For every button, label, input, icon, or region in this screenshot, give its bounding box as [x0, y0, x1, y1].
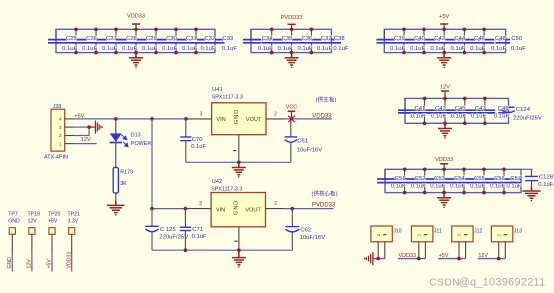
- svg-text:C70: C70: [192, 137, 204, 143]
- svg-text:TP19: TP19: [28, 212, 41, 218]
- svg-text:C46: C46: [474, 36, 486, 42]
- svg-text:GND: GND: [7, 257, 13, 269]
- node (U42 gnd): [237, 248, 241, 252]
- svg-text:0.1uF: 0.1uF: [507, 184, 522, 190]
- LED D13: [110, 119, 152, 168]
- svg-text:J13: J13: [514, 228, 522, 234]
- svg-text:0.1uF: 0.1uF: [298, 46, 313, 52]
- svg-text:12V: 12V: [28, 218, 38, 224]
- svg-text:2: 2: [274, 201, 277, 207]
- ground (C128): [522, 186, 540, 201]
- svg-text:C26: C26: [86, 36, 98, 42]
- pin VOUT U41: [266, 118, 283, 120]
- svg-text:0.1uF: 0.1uF: [538, 182, 553, 188]
- svg-text:0.1uF: 0.1uF: [450, 184, 465, 190]
- wire (top-rail extension to C128): [521, 168, 533, 170]
- wire (TP20 net): [51, 254, 53, 272]
- node (C71): [184, 207, 188, 211]
- svg-text:PVDD33: PVDD33: [281, 15, 303, 21]
- svg-text:C57: C57: [510, 176, 521, 182]
- svg-text:VCC: VCC: [286, 105, 297, 111]
- svg-text:0.1uF: 0.1uF: [451, 46, 466, 52]
- pin GND U42: [238, 227, 240, 250]
- capacitor C54: [450, 168, 474, 195]
- node (J11 pin2): [417, 257, 421, 261]
- test point TP20 (+5V): [48, 212, 61, 254]
- svg-text:TP7: TP7: [8, 212, 18, 218]
- ground (J10, rotated left): [364, 252, 373, 265]
- capacitor C34: [258, 28, 282, 55]
- svg-text:0.1uF: 0.1uF: [490, 184, 505, 190]
- svg-text:SPX1117-3.3: SPX1117-3.3: [211, 187, 242, 193]
- svg-text:0.1uF: 0.1uF: [410, 46, 425, 52]
- svg-text:C34: C34: [262, 36, 274, 42]
- svg-text:C32: C32: [204, 36, 215, 42]
- capacitor C124 (220uF/25V): [494, 106, 542, 122]
- capacitor C28: [122, 28, 146, 55]
- wire (plate-line extension left): [48, 39, 66, 41]
- svg-text:C47: C47: [475, 106, 486, 112]
- no-ERC marker (red X): [288, 116, 294, 122]
- svg-text:0.1uF: 0.1uF: [258, 46, 273, 52]
- svg-text:GND: GND: [234, 109, 240, 124]
- svg-text:C44: C44: [454, 36, 466, 42]
- pin 2 (J13): [498, 242, 500, 259]
- node (C70 tap): [184, 117, 188, 121]
- svg-text:C128: C128: [539, 174, 554, 180]
- pin number 1 (U42): [234, 241, 237, 242]
- pin VOUT U42: [266, 208, 284, 210]
- svg-text:0.1uF: 0.1uF: [471, 114, 486, 120]
- svg-text:2: 2: [416, 233, 421, 236]
- capacitor C31: [182, 28, 206, 55]
- svg-text:2: 2: [457, 233, 462, 236]
- wire U42 bottom rail: [152, 249, 292, 251]
- wire U41 bottom rail: [186, 161, 291, 163]
- svg-text:C38: C38: [334, 36, 346, 42]
- resistor R179: [113, 168, 133, 194]
- svg-text:0.1uF: 0.1uF: [201, 46, 216, 52]
- capacitor C36: [298, 28, 322, 55]
- connector J12: [452, 226, 483, 242]
- wire (plate-line extension left): [398, 109, 415, 111]
- capacitor C42: [430, 28, 454, 55]
- svg-text:TP21: TP21: [68, 212, 81, 218]
- capacitor C33 (outside right): [215, 36, 237, 52]
- cap bank 12V: rail box: [405, 98, 509, 123]
- svg-text:C50: C50: [511, 36, 523, 42]
- wire (plate-line extension left): [243, 39, 261, 41]
- capacitor C56: [490, 168, 514, 195]
- svg-text:C41: C41: [414, 106, 425, 112]
- ground: [285, 53, 299, 68]
- svg-text:0.1uF: 0.1uF: [142, 46, 157, 52]
- svg-text:C62: C62: [300, 228, 311, 234]
- svg-text:C71: C71: [192, 227, 203, 233]
- ground: [437, 193, 451, 208]
- wire +5V rail: [74, 118, 187, 120]
- svg-text:0.1uF: 0.1uF: [431, 114, 446, 120]
- svg-text:0.1uF: 0.1uF: [278, 46, 293, 52]
- svg-text:0.1uF: 0.1uF: [451, 114, 466, 120]
- wire (J12 net +5V): [438, 258, 465, 260]
- svg-text:(供核心板): (供核心板): [312, 190, 338, 198]
- power symbol 12V: [440, 85, 450, 99]
- svg-text:+5V: +5V: [47, 259, 53, 269]
- svg-text:J11: J11: [434, 228, 442, 234]
- svg-text:C36: C36: [301, 36, 313, 42]
- capacitor C71 (0.1uF): [180, 209, 207, 251]
- svg-text:PVDD33: PVDD33: [312, 203, 336, 209]
- wire 12V stub: [74, 143, 96, 145]
- svg-text:C61: C61: [297, 139, 308, 145]
- capacitor C29: [142, 28, 166, 55]
- power symbol PVDD33: [281, 15, 303, 30]
- svg-text:C53: C53: [434, 176, 446, 182]
- svg-text:3K: 3K: [120, 181, 127, 187]
- connector J13: [491, 226, 522, 242]
- svg-text:R179: R179: [120, 170, 133, 176]
- svg-text:10uF/16V: 10uF/16V: [300, 235, 326, 241]
- svg-text:C55: C55: [474, 176, 486, 182]
- svg-text:VDD33: VDD33: [399, 253, 416, 259]
- capacitor C43: [431, 97, 455, 126]
- capacitor C53: [430, 168, 454, 195]
- wire U42 input rail: [152, 208, 188, 210]
- power symbol +5V: [439, 14, 449, 29]
- wire +5V branch down to U42: [151, 119, 153, 209]
- svg-text:C28: C28: [126, 36, 138, 42]
- node (J12 pin2): [457, 257, 461, 261]
- svg-text:0.1uF: 0.1uF: [162, 46, 177, 52]
- svg-text:0.1uF: 0.1uF: [430, 46, 445, 52]
- wire (TP21 net): [71, 254, 73, 272]
- capacitor C38 (outside right): [331, 36, 348, 52]
- svg-text:U42: U42: [212, 179, 223, 185]
- capacitor C50 (outside right): [506, 36, 527, 52]
- svg-text:0.1uF: 0.1uF: [62, 46, 77, 52]
- cap bank VDD33-2: rail box: [385, 169, 521, 192]
- svg-text:0.1uF: 0.1uF: [82, 46, 97, 52]
- svg-text:3: 3: [199, 201, 202, 207]
- capacitor C70 (0.1uF): [180, 119, 206, 162]
- ground: [438, 123, 452, 138]
- svg-text:SPX1117-3.3: SPX1117-3.3: [212, 95, 243, 101]
- pin 1 (J12): [465, 242, 467, 259]
- op-amp/regulator U42 SPX1117-3.3: [211, 179, 265, 227]
- svg-text:0.1uF: 0.1uF: [102, 46, 117, 52]
- svg-text:C39: C39: [394, 36, 405, 42]
- cap bank VDD33-1: rail box: [56, 29, 215, 52]
- power symbol VCC: [286, 105, 297, 119]
- pin number 1 (U41): [233, 150, 236, 151]
- svg-text:VOUT: VOUT: [245, 208, 261, 214]
- pin 2 (J10): [377, 242, 379, 259]
- svg-text:C51: C51: [395, 176, 406, 182]
- svg-text:C45: C45: [455, 106, 467, 112]
- wire (J11 net VDD33): [398, 258, 425, 260]
- cap bank PVDD33: rail box: [251, 29, 331, 52]
- svg-text:+5V: +5V: [439, 14, 449, 20]
- node (C62 tap): [291, 207, 295, 211]
- capacitor C57 (at right rail): [507, 176, 522, 190]
- ground (U42): [232, 250, 246, 268]
- node junction pins 2+3: [87, 125, 91, 129]
- svg-text:0.1uF: 0.1uF: [317, 46, 332, 52]
- power symbol VDD33: [127, 14, 145, 30]
- wire VOUT to PVDD33: [283, 208, 334, 210]
- capacitor C25: [62, 28, 86, 55]
- capacitor C51: [391, 168, 415, 195]
- svg-text:C43: C43: [435, 106, 447, 112]
- capacitor C39: [390, 28, 414, 55]
- pin 2 stub: [65, 135, 75, 137]
- pin 1 (J11): [424, 242, 426, 259]
- pin GND U41: [238, 135, 240, 163]
- pin 1 stub: [65, 143, 75, 145]
- test point TP7 (GND): [8, 212, 20, 254]
- svg-text:C124: C124: [516, 107, 531, 113]
- node VCC/VDD33: [290, 117, 293, 120]
- svg-text:220uF/25V: 220uF/25V: [159, 235, 188, 241]
- svg-text:0.1uF: 0.1uF: [333, 46, 348, 52]
- svg-text:3: 3: [200, 111, 203, 117]
- power symbol VDD33: [435, 157, 453, 169]
- svg-text:+5V: +5V: [439, 253, 449, 259]
- svg-text:J10: J10: [393, 228, 401, 234]
- node (C125): [150, 207, 154, 211]
- capacitor C30: [162, 28, 186, 55]
- wire (TP19 net): [31, 254, 33, 272]
- svg-text:0.1uF: 0.1uF: [222, 46, 237, 52]
- svg-text:@q_1039692211: @q_1039692211: [459, 277, 546, 289]
- wire (left rail cap stub): [250, 29, 252, 39]
- svg-text:0.1uF: 0.1uF: [430, 184, 445, 190]
- wire pin2 up to junction: [74, 127, 89, 135]
- svg-text:0.1uF: 0.1uF: [391, 184, 406, 190]
- svg-text:12V: 12V: [81, 137, 91, 143]
- connector J10: [371, 226, 402, 242]
- svg-text:ATX-4PIN: ATX-4PIN: [44, 155, 68, 161]
- svg-text:2: 2: [274, 111, 277, 117]
- svg-text:D13: D13: [131, 133, 141, 139]
- node (D13 tap): [114, 117, 118, 121]
- svg-text:C52: C52: [415, 176, 426, 182]
- svg-text:0.1uF: 0.1uF: [491, 46, 506, 52]
- svg-text:C49: C49: [498, 106, 509, 112]
- wire (left rail cap stub): [404, 98, 406, 109]
- wire R179 to ground: [115, 193, 117, 203]
- capacitor C125 (220uF/25V): [145, 209, 188, 251]
- wire (J13 net 12V): [478, 258, 505, 260]
- svg-text:VIN: VIN: [216, 208, 225, 214]
- svg-text:GND: GND: [233, 200, 239, 215]
- svg-text:3.3V: 3.3V: [68, 218, 79, 224]
- wire (left rail cap stub): [383, 29, 385, 39]
- node (J13 pin2): [497, 257, 501, 261]
- svg-text:C27: C27: [106, 36, 117, 42]
- wire (TP7 net): [11, 254, 13, 272]
- node (J10 pin2): [376, 257, 380, 261]
- capacitor C44: [451, 28, 475, 55]
- svg-text:C 125: C 125: [160, 227, 176, 233]
- pin 1 (J13): [504, 242, 506, 259]
- pin 4 stub: [65, 118, 75, 120]
- svg-text:0.1uF: 0.1uF: [411, 184, 426, 190]
- capacitor C49 (at right rail): [494, 106, 509, 120]
- svg-text:C31: C31: [186, 36, 197, 42]
- svg-text:C54: C54: [454, 176, 466, 182]
- svg-text:0.1uF: 0.1uF: [192, 234, 207, 240]
- capacitor C32 (at right rail): [201, 36, 216, 52]
- svg-text:VOUT: VOUT: [246, 117, 262, 123]
- svg-text:0.1uF: 0.1uF: [470, 184, 485, 190]
- pin 2 (J11): [418, 242, 420, 259]
- svg-text:12V: 12V: [440, 85, 450, 91]
- svg-text:C56: C56: [494, 176, 506, 182]
- svg-text:C40: C40: [414, 36, 426, 42]
- svg-text:3: 3: [59, 125, 62, 130]
- svg-text:12V: 12V: [27, 259, 33, 269]
- svg-text:+5V: +5V: [48, 218, 58, 224]
- capacitor C55: [470, 168, 494, 195]
- ground (R179): [107, 201, 125, 216]
- svg-text:0.1uF: 0.1uF: [411, 114, 426, 120]
- svg-text:0.1uF: 0.1uF: [511, 46, 526, 52]
- svg-text:VDD33: VDD33: [127, 14, 145, 20]
- connector J28 ATX-4PIN: [44, 104, 68, 160]
- svg-text:VIN: VIN: [216, 117, 225, 123]
- wire (plate-line extension left): [377, 39, 395, 41]
- svg-text:U41: U41: [212, 87, 223, 93]
- svg-text:(供主板): (供主板): [316, 96, 337, 104]
- pin 3 stub: [65, 126, 75, 128]
- pin 1 (J10): [384, 242, 386, 259]
- svg-text:POWER: POWER: [131, 141, 151, 147]
- capacitor C52: [411, 168, 435, 195]
- svg-text:C29: C29: [146, 36, 157, 42]
- pin 2 (J12): [458, 242, 460, 259]
- capacitor C27: [102, 28, 126, 55]
- svg-text:2: 2: [376, 233, 381, 236]
- svg-text:4: 4: [59, 117, 62, 122]
- svg-text:12V: 12V: [478, 253, 488, 259]
- wire VOUT to VDD33: [283, 118, 332, 120]
- capacitor C35: [278, 28, 302, 55]
- capacitor C62 (10uF/16V): [285, 209, 325, 251]
- capacitor C40: [410, 28, 434, 55]
- capacitor C128 (0.1uF): [525, 169, 554, 188]
- svg-text:GND: GND: [8, 218, 20, 224]
- connector J11: [412, 226, 442, 242]
- node (C71 bottom): [184, 248, 188, 252]
- svg-text:C30: C30: [166, 36, 178, 42]
- ground: [437, 53, 451, 68]
- svg-text:0.1uF: 0.1uF: [470, 46, 485, 52]
- test point TP21 (3.3V): [68, 212, 81, 254]
- capacitor C45: [451, 97, 475, 126]
- ground: [129, 53, 143, 68]
- svg-text:2: 2: [496, 233, 501, 236]
- capacitor C48 (at right rail): [491, 36, 506, 52]
- svg-text:C35: C35: [282, 36, 294, 42]
- capacitor C37 (at right rail): [317, 36, 332, 52]
- svg-text:1: 1: [59, 142, 62, 147]
- capacitor C46: [470, 28, 494, 55]
- svg-text:TP20: TP20: [48, 212, 61, 218]
- svg-text:C42: C42: [434, 36, 445, 42]
- svg-text:0.1uF: 0.1uF: [390, 46, 405, 52]
- svg-text:C37: C37: [321, 36, 332, 42]
- wire VIN U41: [187, 118, 212, 120]
- ground (J28, rotated): [89, 121, 103, 134]
- svg-text:0.1uF: 0.1uF: [191, 144, 206, 150]
- svg-text:VDD33: VDD33: [312, 114, 332, 120]
- wire pin3 to gnd junction: [74, 126, 89, 128]
- op-amp/regulator U41 SPX1117-3.3: [212, 87, 266, 135]
- capacitor C26: [82, 28, 106, 55]
- svg-text:0.1uF: 0.1uF: [182, 46, 197, 52]
- svg-text:VDD33: VDD33: [435, 157, 453, 163]
- wire (J10 to ground): [373, 258, 385, 260]
- wire (left rail cap stub): [384, 169, 386, 178]
- svg-text:C33: C33: [222, 36, 234, 42]
- svg-text:VDD33: VDD33: [66, 252, 72, 269]
- svg-text:C25: C25: [66, 36, 78, 42]
- svg-text:J12: J12: [474, 228, 482, 234]
- capacitor C47: [471, 97, 495, 126]
- pin VIN U42: [188, 208, 212, 210]
- svg-text:220uF/25V: 220uF/25V: [513, 116, 542, 122]
- wire (left rail cap stub): [55, 29, 57, 39]
- svg-text:0.1uF: 0.1uF: [122, 46, 137, 52]
- svg-text:10uF/16V: 10uF/16V: [297, 148, 323, 154]
- svg-text:2: 2: [59, 133, 62, 138]
- svg-text:CSDN: CSDN: [429, 278, 460, 289]
- cap bank +5V: rail box: [384, 29, 505, 52]
- node (U41 gnd): [237, 161, 241, 165]
- test point TP19 (12V): [28, 212, 41, 254]
- wire (plate-line extension left): [377, 178, 395, 180]
- capacitor C61 (10uF/16V): [285, 119, 323, 162]
- ground (U41): [232, 162, 246, 177]
- svg-text:0.1uF: 0.1uF: [494, 114, 509, 120]
- node (U42 branch): [150, 117, 154, 121]
- capacitor C41: [411, 97, 435, 126]
- svg-text:C48: C48: [495, 36, 507, 42]
